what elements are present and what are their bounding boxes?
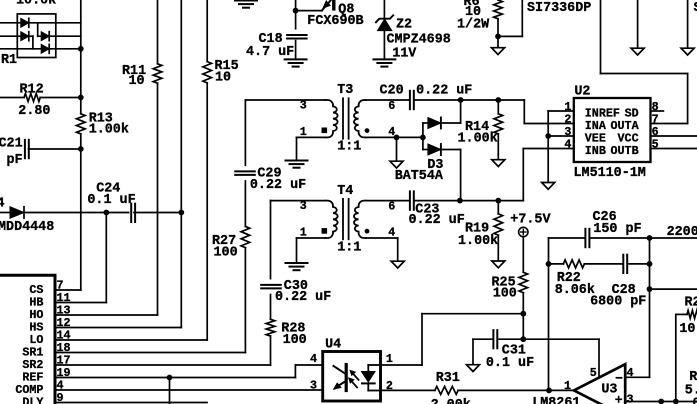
svg-text:150 pF: 150 pF [593, 222, 641, 237]
svg-text:INB: INB [585, 144, 606, 158]
svg-text:OUTB: OUTB [611, 144, 639, 158]
svg-text:T3: T3 [337, 83, 353, 98]
svg-text:2.80: 2.80 [18, 104, 50, 119]
svg-text:MDD4448: MDD4448 [0, 220, 54, 235]
svg-text:0.22 uF: 0.22 uF [409, 213, 465, 228]
svg-text:1:1: 1:1 [337, 140, 361, 155]
svg-text:C21: C21 [0, 137, 23, 152]
svg-text:100: 100 [214, 245, 238, 260]
svg-text:U3: U3 [601, 383, 617, 398]
svg-text:6800 pF: 6800 pF [590, 295, 646, 310]
svg-text:4: 4 [564, 138, 571, 152]
svg-text:S: S [694, 1, 697, 16]
svg-text:U2: U2 [574, 85, 590, 100]
svg-text:10: 10 [129, 74, 145, 89]
svg-text:1/2W: 1/2W [457, 18, 490, 33]
svg-text:2.00k: 2.00k [431, 398, 471, 404]
svg-text:DLY: DLY [22, 396, 43, 404]
svg-text:1.00k: 1.00k [458, 132, 498, 147]
svg-text:100: 100 [283, 333, 307, 348]
svg-text:R31: R31 [436, 371, 460, 386]
svg-text:5: 5 [590, 366, 597, 380]
svg-text:SI7336DP: SI7336DP [527, 1, 591, 16]
svg-text:1.00k: 1.00k [89, 123, 129, 138]
svg-text:0.22 uF: 0.22 uF [416, 84, 472, 99]
svg-text:FCX690B: FCX690B [307, 14, 363, 29]
svg-text:CMPZ4698: CMPZ4698 [387, 33, 451, 48]
svg-text:0.22 uF: 0.22 uF [250, 178, 306, 193]
svg-text:10.0k: 10.0k [16, 0, 56, 9]
svg-text:100: 100 [493, 287, 517, 302]
svg-text:0.1 uF: 0.1 uF [486, 356, 534, 371]
svg-text:4: 4 [310, 352, 317, 366]
svg-text:3: 3 [310, 379, 317, 393]
svg-text:pF: pF [7, 153, 23, 168]
svg-text:4.7 uF: 4.7 uF [246, 45, 294, 60]
svg-text:5: 5 [652, 138, 659, 152]
svg-text:0.22 uF: 0.22 uF [275, 290, 331, 305]
svg-text:6: 6 [388, 200, 395, 214]
svg-text:2200: 2200 [667, 225, 697, 240]
svg-text:T4: T4 [337, 184, 353, 199]
svg-text:Z2: Z2 [396, 18, 412, 33]
svg-text:0: 0 [693, 397, 697, 404]
svg-text:1.00k: 1.00k [458, 234, 498, 249]
svg-text:9: 9 [57, 391, 64, 404]
svg-text:1:1: 1:1 [337, 241, 361, 256]
svg-text:1: 1 [564, 379, 571, 393]
svg-text:BAT54A: BAT54A [395, 169, 444, 184]
svg-text:R12: R12 [20, 83, 44, 98]
svg-text:11V: 11V [392, 47, 417, 62]
svg-text:10: 10 [679, 322, 695, 337]
svg-text:8.06k: 8.06k [555, 283, 595, 298]
svg-text:10: 10 [215, 70, 231, 85]
svg-text:R2: R2 [685, 296, 697, 311]
svg-text:C20: C20 [380, 84, 404, 99]
svg-text:R1: R1 [1, 53, 17, 68]
svg-text:U4: U4 [325, 338, 341, 353]
svg-text:LM5110-1M: LM5110-1M [574, 166, 646, 181]
svg-text:4: 4 [0, 197, 5, 212]
svg-text:+7.5V: +7.5V [510, 213, 551, 228]
svg-text:0.1 uF: 0.1 uF [87, 193, 135, 208]
svg-text:1: 1 [386, 352, 393, 366]
svg-text:LM8261: LM8261 [532, 396, 580, 404]
svg-text:6: 6 [388, 99, 395, 113]
